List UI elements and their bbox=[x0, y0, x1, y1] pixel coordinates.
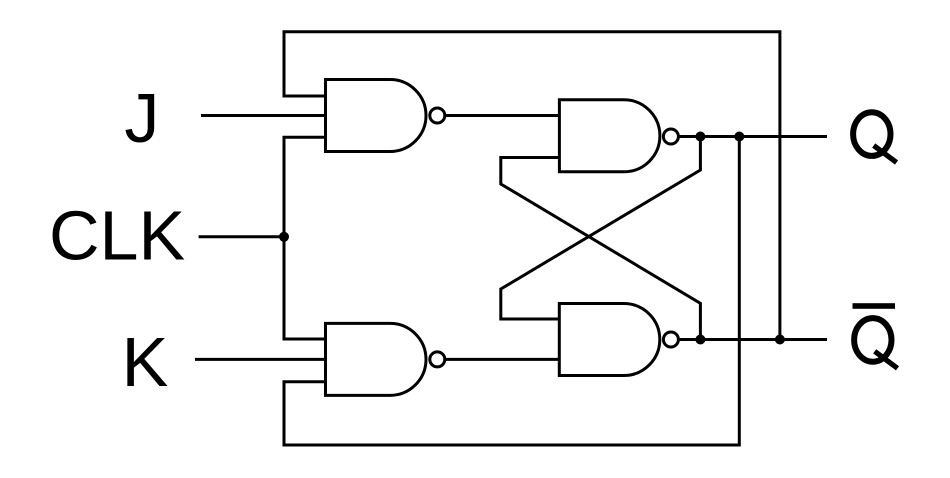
junction CLK node bbox=[279, 232, 289, 242]
wire U1 output to U3 input 1 bbox=[446, 114, 560, 117]
wire CLK vertical to U1 input 3 and U2 input 1 bbox=[284, 137, 326, 339]
wire K input line bbox=[195, 358, 326, 361]
wire cross-coupling U3 input 2 to Q-bar node bbox=[501, 158, 701, 340]
inverter bubble of U2 bbox=[430, 352, 445, 367]
nand-gate U4 (Q-bar latch gate, bottom-right) bbox=[559, 304, 660, 376]
nand-gate U3 (Q latch gate, top-right) bbox=[559, 100, 660, 172]
junction Q node at U3 output bbox=[695, 132, 705, 142]
nand-gate U2 (K gate, bottom-left) bbox=[326, 323, 427, 395]
nand-gate U1 (J gate, top-left) bbox=[326, 80, 427, 152]
junction Q-bar node at U4 output bbox=[695, 335, 705, 345]
svg-text:K: K bbox=[122, 323, 169, 401]
inverter bubble of U4 bbox=[663, 332, 678, 347]
wire Q output line bbox=[679, 135, 827, 138]
junction Q feedback tap bbox=[734, 132, 744, 142]
junction Q-bar feedback tap bbox=[775, 335, 785, 345]
label Q-bar bbox=[854, 318, 897, 368]
inverter bubble of U3 bbox=[663, 129, 678, 144]
inverter bubble of U1 bbox=[430, 108, 445, 123]
wire Q-bar feedback: top rail from Q-bar node to gate U1 input 1 bbox=[284, 32, 780, 340]
label Q bbox=[853, 112, 896, 162]
svg-text:J: J bbox=[124, 79, 159, 157]
wire J input line bbox=[201, 114, 326, 117]
wire Q feedback: bottom rail from Q node to gate U2 input 3 bbox=[284, 137, 739, 446]
overline of Q-bar bbox=[853, 303, 896, 309]
svg-text:CLK: CLK bbox=[49, 196, 185, 274]
wire Q-bar output line bbox=[679, 338, 827, 341]
wire cross-coupling Q node to U4 input 1 bbox=[501, 137, 701, 320]
wire U2 output to U4 input 2 bbox=[446, 358, 560, 361]
wire CLK input line bbox=[199, 235, 284, 238]
